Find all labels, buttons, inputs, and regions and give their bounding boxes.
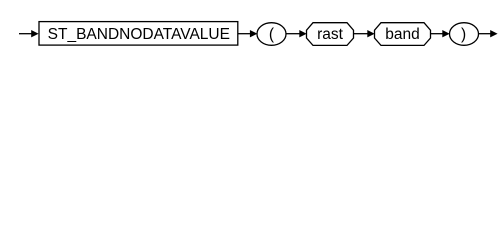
svg-text:rast: rast bbox=[317, 26, 344, 43]
svg-text:ST_BANDNODATAVALUE: ST_BANDNODATAVALUE bbox=[48, 26, 230, 43]
svg-text:(: ( bbox=[269, 26, 275, 43]
svg-text:band: band bbox=[385, 26, 419, 43]
svg-text:): ) bbox=[461, 26, 466, 43]
